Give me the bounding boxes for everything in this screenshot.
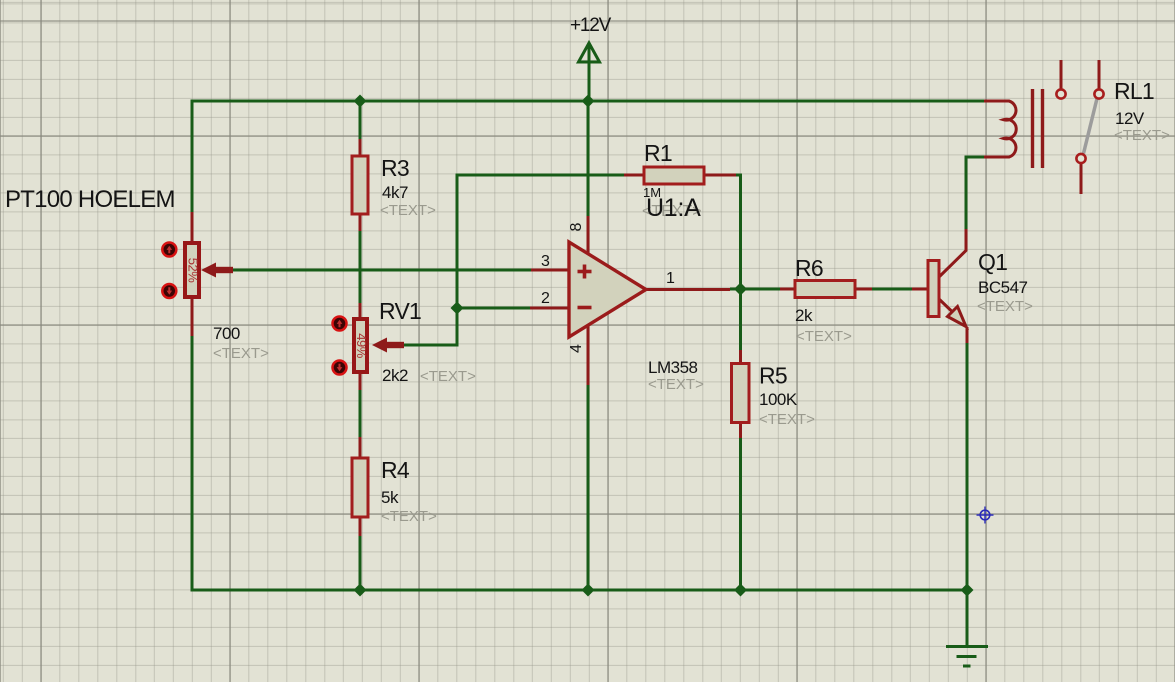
svg-text:<TEXT>: <TEXT> — [796, 328, 852, 345]
svg-text:5k: 5k — [381, 488, 399, 507]
svg-text:LM358: LM358 — [648, 358, 698, 377]
svg-text:BC547: BC547 — [978, 278, 1028, 297]
svg-text:52%: 52% — [186, 258, 201, 283]
svg-text:R3: R3 — [381, 155, 409, 181]
svg-text:R5: R5 — [759, 363, 787, 389]
svg-text:Q1: Q1 — [978, 249, 1007, 275]
svg-text:RL1: RL1 — [1114, 78, 1154, 104]
svg-text:<TEXT>: <TEXT> — [380, 202, 436, 219]
svg-text:49%: 49% — [354, 333, 369, 358]
svg-text:+12V: +12V — [570, 15, 612, 36]
svg-text:4: 4 — [568, 344, 585, 353]
svg-text:8: 8 — [568, 222, 585, 231]
svg-text:R6: R6 — [795, 255, 823, 281]
svg-text:2k: 2k — [795, 306, 813, 325]
svg-text:<TEXT>: <TEXT> — [648, 376, 704, 393]
svg-text:<TEXT>: <TEXT> — [420, 368, 476, 385]
svg-text:RV1: RV1 — [379, 298, 421, 324]
svg-text:<TEXT>: <TEXT> — [1114, 127, 1170, 144]
svg-text:2k2: 2k2 — [382, 366, 408, 385]
svg-text:<TEXT>: <TEXT> — [213, 345, 269, 362]
svg-text:PT100 HOELEM: PT100 HOELEM — [5, 186, 175, 213]
svg-text:U1:A: U1:A — [646, 194, 701, 222]
svg-text:<TEXT>: <TEXT> — [759, 411, 815, 428]
svg-text:2: 2 — [541, 290, 550, 307]
svg-text:700: 700 — [213, 324, 240, 343]
svg-text:<TEXT>: <TEXT> — [381, 508, 437, 525]
svg-text:100K: 100K — [759, 390, 798, 409]
svg-text:<TEXT>: <TEXT> — [977, 298, 1033, 315]
svg-text:3: 3 — [541, 253, 550, 270]
svg-text:4k7: 4k7 — [382, 183, 408, 202]
svg-text:1: 1 — [666, 270, 675, 287]
svg-text:R4: R4 — [381, 457, 410, 483]
svg-text:12V: 12V — [1115, 109, 1145, 128]
svg-text:R1: R1 — [644, 140, 672, 166]
